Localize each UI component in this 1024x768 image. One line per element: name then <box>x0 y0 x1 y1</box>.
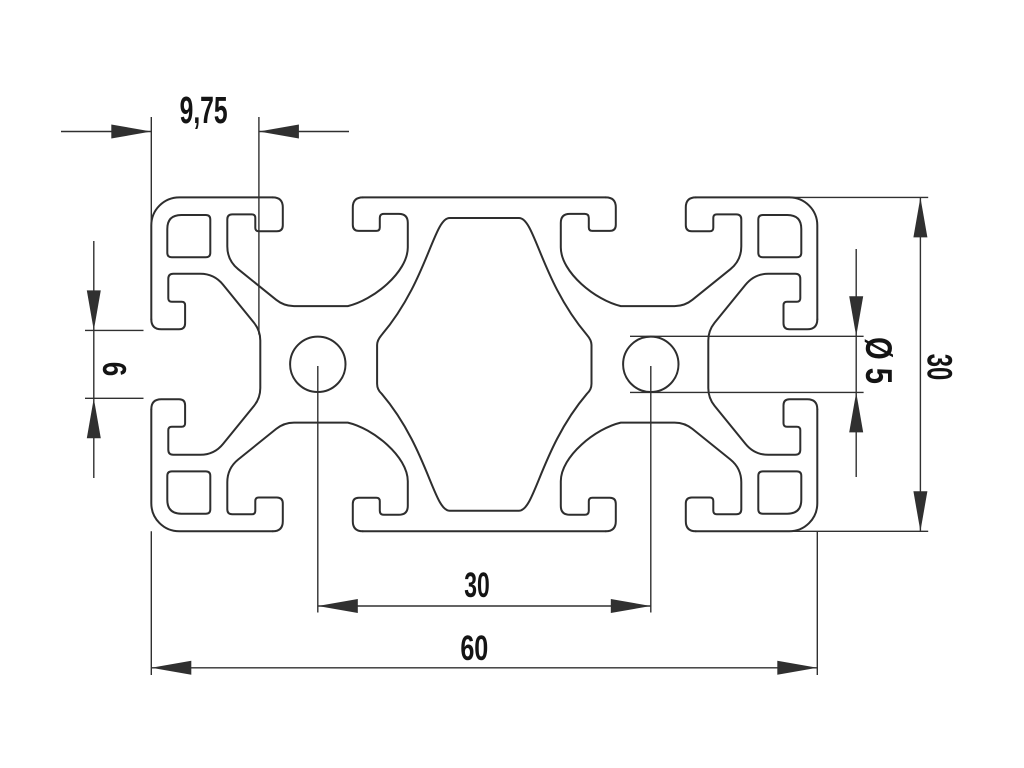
dim 6 dimension line <box>93 241 95 478</box>
dim 9,75 extension line at slot lip <box>258 117 260 335</box>
arrowheads dim 30 right <box>913 197 927 237</box>
wire: top edge between slots <box>363 196 606 198</box>
dim D5 dimension line <box>855 249 857 477</box>
wire: right edge lower + bottom-right corner + bottom edge right <box>696 409 818 531</box>
dim D5 extension lines at right hole <box>630 335 864 337</box>
dim 30 bottom extension line from left hole center <box>317 366 319 613</box>
svg-text:30: 30 <box>920 354 959 380</box>
T-slot cavity top-left <box>227 197 407 306</box>
arrowheads dim 60 <box>151 661 191 675</box>
bore hole D5 left <box>290 337 345 392</box>
svg-text:60: 60 <box>460 629 488 668</box>
T-slot cavity top-right <box>561 197 742 306</box>
dim 30 right dimension line <box>919 197 921 531</box>
cavity bottom-right corner <box>758 471 801 513</box>
svg-text:9,75: 9,75 <box>180 89 228 132</box>
wire: outer left-upper edge + top-left corner + top edge <box>151 197 272 319</box>
arrowheads dim D5 <box>849 296 863 336</box>
svg-text:30: 30 <box>464 566 489 605</box>
T-slot cavity right <box>708 274 817 455</box>
wire: bottom edge left + bottom-left corner + left edge lower <box>151 409 272 531</box>
arrowheads dim 30 bottom <box>318 599 358 613</box>
dim 6 extension lines at left slot mouth <box>85 329 144 331</box>
dim 9,75 dimension line left segment <box>61 131 151 133</box>
cavity top-left corner <box>167 215 210 257</box>
dim 30 bottom extension line from right hole center <box>650 366 652 613</box>
cavity bottom-left corner <box>167 471 210 513</box>
arrowheads dim 9,75 <box>111 125 151 139</box>
T-slot cavity bottom-right <box>561 423 742 532</box>
wire: bottom edge between slots <box>363 530 606 532</box>
wire: top edge right + top-right corner + right edge upper <box>696 197 818 319</box>
dim 60 extension lines <box>150 531 152 675</box>
T-slot cavity bottom-left <box>227 423 407 532</box>
T-slot cavity left <box>151 274 260 455</box>
arrowheads dim 6 <box>87 290 101 330</box>
dim 9,75 extension line at profile left edge <box>150 117 152 225</box>
bore hole D5 right <box>623 337 678 392</box>
dim 30 right extension lines <box>790 196 928 198</box>
dim 60 dimension line <box>151 667 817 669</box>
dim 30 bottom dimension line <box>318 605 651 607</box>
central cavity octagon <box>377 218 591 511</box>
cavity top-right corner <box>758 215 801 257</box>
dim 9,75 dimension line right segment <box>259 131 349 133</box>
svg-text:Ø 5: Ø 5 <box>857 337 898 384</box>
svg-text:6: 6 <box>95 362 132 376</box>
